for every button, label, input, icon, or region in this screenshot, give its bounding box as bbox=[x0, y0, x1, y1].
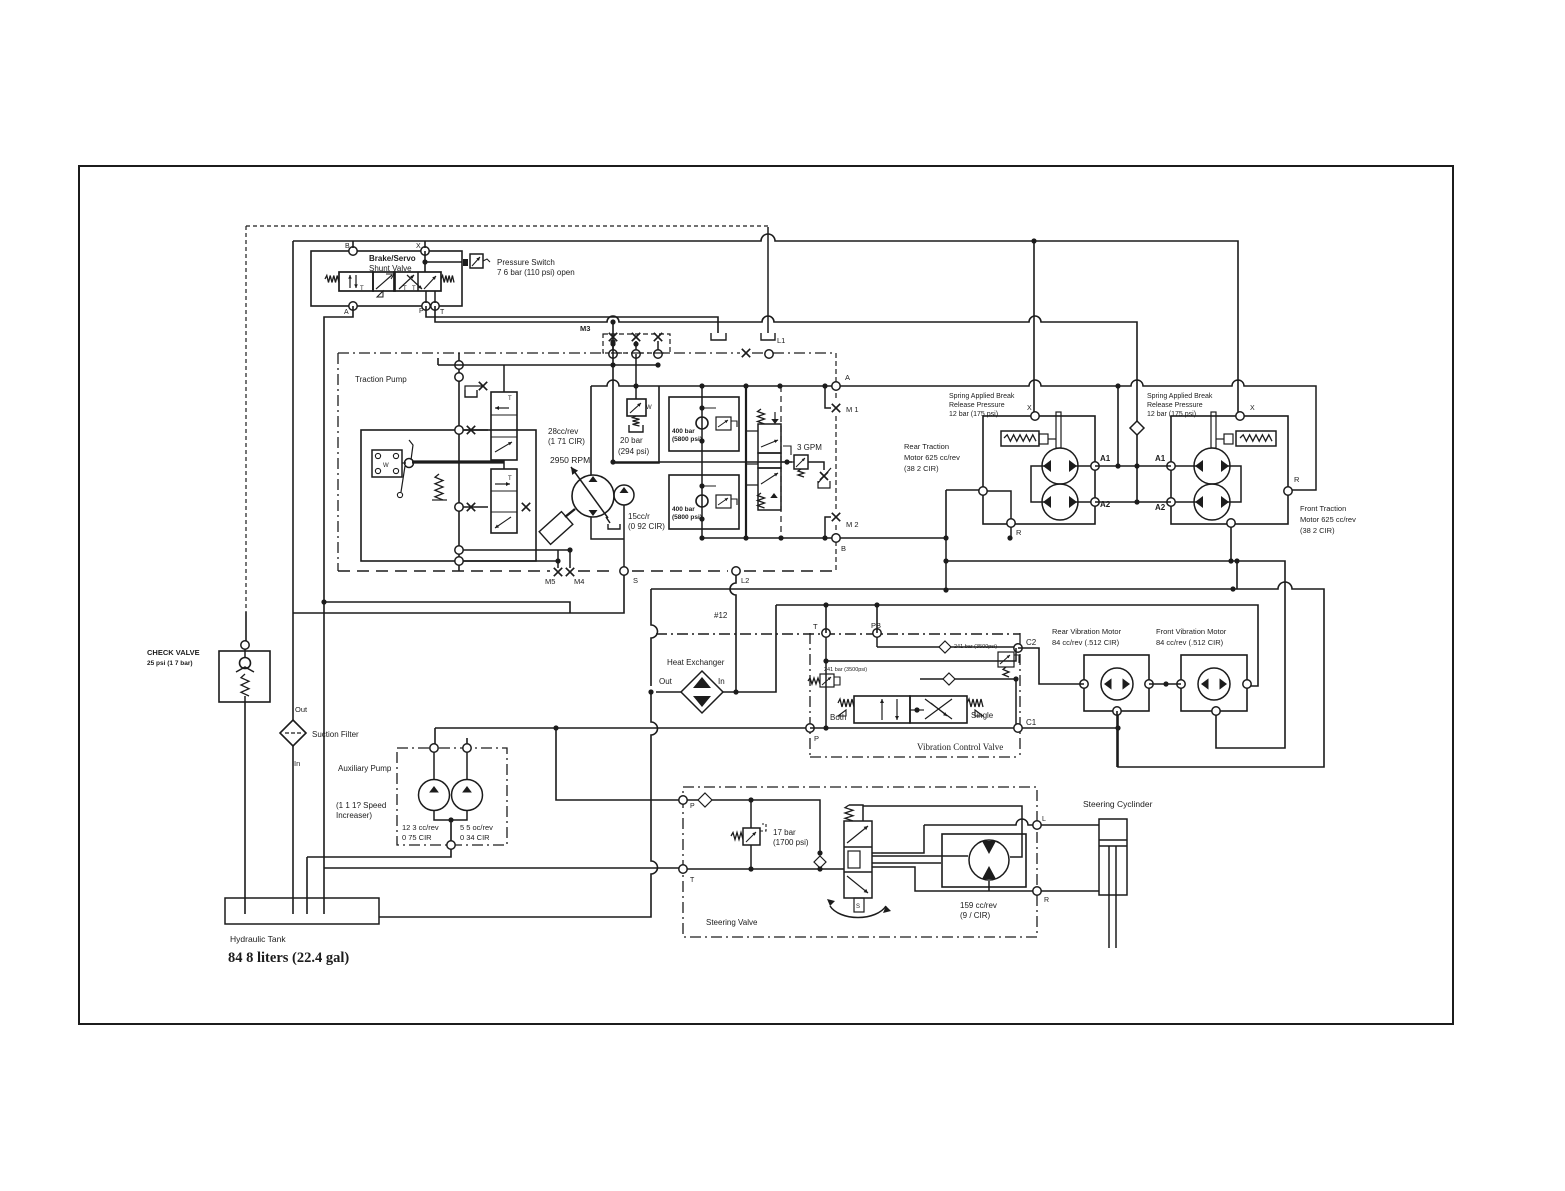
svg-text:(1 71 CIR): (1 71 CIR) bbox=[548, 437, 585, 446]
svg-text:T: T bbox=[508, 476, 512, 482]
svg-text:S: S bbox=[856, 904, 860, 910]
svg-text:2950 RPM: 2950 RPM bbox=[550, 455, 590, 465]
svg-text:P: P bbox=[814, 734, 819, 743]
svg-text:Brake/Servo: Brake/Servo bbox=[369, 254, 416, 263]
svg-text:T: T bbox=[360, 286, 364, 292]
svg-text:S: S bbox=[633, 576, 638, 585]
svg-text:84 cc/rev (.512 CIR): 84 cc/rev (.512 CIR) bbox=[1156, 638, 1224, 647]
svg-text:159 cc/rev: 159 cc/rev bbox=[960, 901, 997, 910]
svg-text:Out: Out bbox=[659, 677, 673, 686]
svg-text:0 34 CIR: 0 34 CIR bbox=[460, 833, 490, 842]
svg-text:B: B bbox=[841, 544, 846, 553]
svg-text:0 75 CIR: 0 75 CIR bbox=[402, 833, 432, 842]
svg-text:Front Vibration Motor: Front Vibration Motor bbox=[1156, 627, 1227, 636]
svg-text:R: R bbox=[1016, 528, 1022, 537]
svg-text:Spring Applied Break: Spring Applied Break bbox=[949, 393, 1015, 400]
svg-text:W: W bbox=[383, 463, 389, 469]
svg-text:W: W bbox=[646, 405, 652, 411]
svg-text:Traction Pump: Traction Pump bbox=[355, 375, 407, 384]
svg-text:241 bar (3500psi): 241 bar (3500psi) bbox=[954, 644, 997, 650]
svg-text:Steering Valve: Steering Valve bbox=[706, 918, 758, 927]
svg-text:B: B bbox=[345, 243, 350, 250]
svg-text:P: P bbox=[419, 308, 424, 315]
svg-text:Hydraulic Tank: Hydraulic Tank bbox=[230, 934, 286, 944]
svg-text:25 psi (1 7 bar): 25 psi (1 7 bar) bbox=[147, 660, 193, 667]
svg-text:A: A bbox=[845, 373, 850, 382]
svg-text:Steering Cyclinder: Steering Cyclinder bbox=[1083, 799, 1153, 809]
svg-text:M3: M3 bbox=[580, 324, 590, 333]
svg-text:12 bar (175 psi): 12 bar (175 psi) bbox=[1147, 411, 1196, 418]
svg-text:Increaser): Increaser) bbox=[336, 811, 372, 820]
svg-text:A2: A2 bbox=[1155, 503, 1166, 512]
svg-text:T: T bbox=[412, 286, 416, 292]
svg-text:M 2: M 2 bbox=[846, 520, 859, 529]
svg-text:Rear Traction: Rear Traction bbox=[904, 442, 949, 451]
svg-text:T: T bbox=[690, 877, 695, 884]
svg-text:17 bar: 17 bar bbox=[773, 828, 796, 837]
svg-text:Both: Both bbox=[830, 713, 846, 722]
svg-text:M4: M4 bbox=[574, 577, 584, 586]
svg-text:12 3 cc/rev: 12 3 cc/rev bbox=[402, 823, 439, 832]
svg-text:In: In bbox=[294, 759, 300, 768]
svg-text:Motor 625 cc/rev: Motor 625 cc/rev bbox=[1300, 515, 1356, 524]
svg-text:(38 2 CIR): (38 2 CIR) bbox=[1300, 526, 1335, 535]
svg-text:7 6 bar (110 psi) open: 7 6 bar (110 psi) open bbox=[497, 268, 575, 277]
svg-text:Release Pressure: Release Pressure bbox=[949, 402, 1005, 409]
svg-text:In: In bbox=[718, 677, 725, 686]
svg-text:84 8 liters (22.4 gal): 84 8 liters (22.4 gal) bbox=[228, 950, 349, 966]
svg-text:R: R bbox=[1294, 475, 1300, 484]
svg-text:(9 / CIR): (9 / CIR) bbox=[960, 911, 991, 920]
svg-text:X: X bbox=[1250, 405, 1255, 412]
svg-text:M5: M5 bbox=[545, 577, 555, 586]
svg-text:Heat Exchanger: Heat Exchanger bbox=[667, 658, 725, 667]
svg-text:Vibration Control Valve: Vibration Control Valve bbox=[917, 742, 1003, 752]
svg-text:T: T bbox=[508, 396, 512, 402]
svg-text:(38 2 CIR): (38 2 CIR) bbox=[904, 464, 939, 473]
svg-text:Out: Out bbox=[295, 705, 308, 714]
svg-text:PB: PB bbox=[871, 621, 881, 630]
svg-text:Release Pressure: Release Pressure bbox=[1147, 402, 1203, 409]
svg-text:241 bar (3500psi): 241 bar (3500psi) bbox=[824, 667, 867, 673]
svg-text:T: T bbox=[440, 309, 445, 316]
svg-text:Pressure Switch: Pressure Switch bbox=[497, 258, 555, 267]
svg-text:A1: A1 bbox=[1155, 454, 1166, 463]
svg-text:P: P bbox=[690, 803, 695, 810]
svg-text:(5800 psi): (5800 psi) bbox=[672, 436, 702, 443]
svg-text:(1 1 1? Speed: (1 1 1? Speed bbox=[336, 801, 386, 810]
svg-text:M 1: M 1 bbox=[846, 405, 859, 414]
svg-text:(294 psi): (294 psi) bbox=[618, 447, 649, 456]
svg-text:Suction Filter: Suction Filter bbox=[312, 730, 359, 739]
svg-text:A1: A1 bbox=[1100, 454, 1111, 463]
svg-text:15cc/r: 15cc/r bbox=[628, 512, 650, 521]
svg-text:Single: Single bbox=[971, 711, 994, 720]
svg-text:(0 92 CIR): (0 92 CIR) bbox=[628, 522, 665, 531]
svg-text:A: A bbox=[344, 309, 349, 316]
svg-text:CHECK VALVE: CHECK VALVE bbox=[147, 648, 200, 657]
svg-text:Shunt Valve: Shunt Valve bbox=[369, 264, 412, 273]
svg-text:400 bar: 400 bar bbox=[672, 428, 695, 435]
svg-text:T: T bbox=[813, 622, 818, 631]
svg-text:(1700 psi): (1700 psi) bbox=[773, 838, 809, 847]
svg-text:X: X bbox=[1027, 405, 1032, 412]
svg-text:(5800 psi): (5800 psi) bbox=[672, 514, 702, 521]
svg-text:Auxiliary Pump: Auxiliary Pump bbox=[338, 764, 392, 773]
svg-text:5 5 oc/rev: 5 5 oc/rev bbox=[460, 823, 493, 832]
svg-text:Front Traction: Front Traction bbox=[1300, 504, 1346, 513]
svg-text:L1: L1 bbox=[777, 336, 785, 345]
svg-text:Rear Vibration Motor: Rear Vibration Motor bbox=[1052, 627, 1122, 636]
svg-text:12 bar (175 psi): 12 bar (175 psi) bbox=[949, 411, 998, 418]
svg-text:X: X bbox=[416, 243, 421, 250]
svg-text:#12: #12 bbox=[714, 611, 728, 620]
svg-text:Motor 625 cc/rev: Motor 625 cc/rev bbox=[904, 453, 960, 462]
svg-text:T: T bbox=[403, 286, 407, 292]
svg-text:20 bar: 20 bar bbox=[620, 436, 643, 445]
svg-text:84 cc/rev (.512 CIR): 84 cc/rev (.512 CIR) bbox=[1052, 638, 1120, 647]
svg-text:R: R bbox=[1044, 897, 1049, 904]
svg-text:C1: C1 bbox=[1026, 718, 1037, 727]
svg-text:L: L bbox=[1042, 816, 1046, 823]
svg-text:28cc/rev: 28cc/rev bbox=[548, 427, 578, 436]
svg-text:Spring Applied Break: Spring Applied Break bbox=[1147, 393, 1213, 400]
svg-text:L2: L2 bbox=[741, 576, 749, 585]
svg-text:400 bar: 400 bar bbox=[672, 506, 695, 513]
svg-text:3 GPM: 3 GPM bbox=[797, 443, 822, 452]
svg-text:C2: C2 bbox=[1026, 638, 1037, 647]
